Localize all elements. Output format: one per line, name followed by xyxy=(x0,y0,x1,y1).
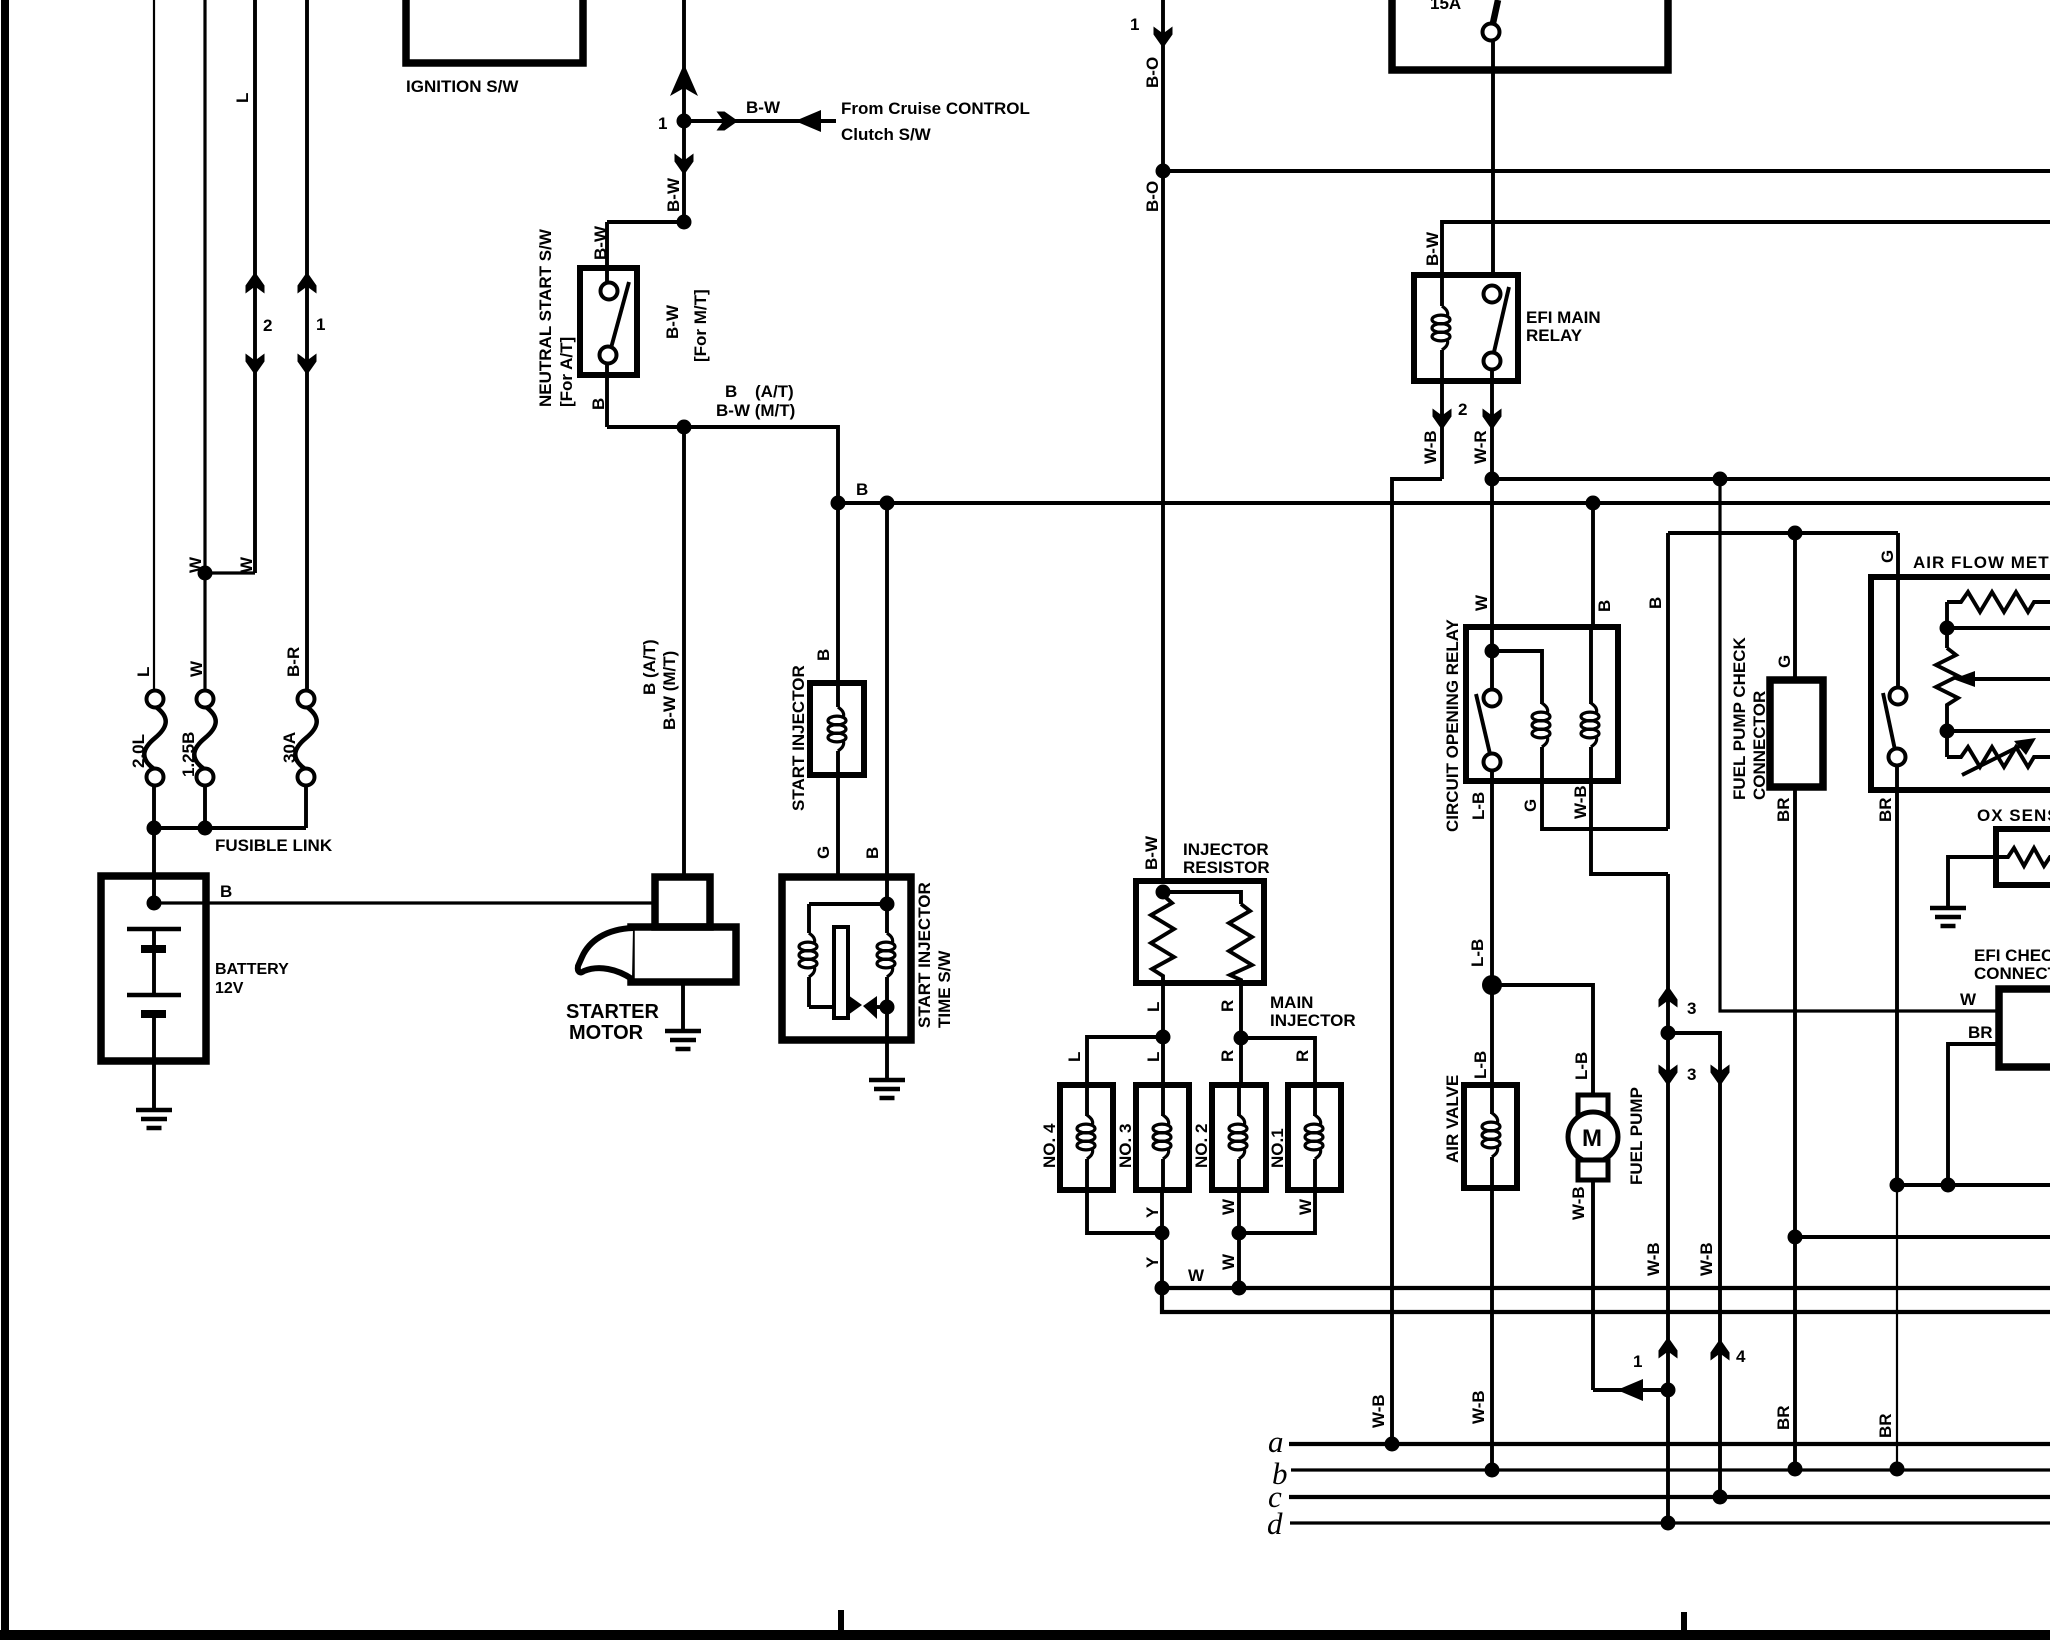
svg-text:3: 3 xyxy=(1687,1065,1696,1084)
svg-text:B-W (M/T): B-W (M/T) xyxy=(660,651,679,730)
svg-text:W-B: W-B xyxy=(1421,430,1440,464)
wire to line d xyxy=(1666,1390,1670,1523)
wire W-R bus (y=479) xyxy=(1492,477,2050,481)
injector NO.2 box xyxy=(1212,1085,1266,1190)
svg-text:B: B xyxy=(856,480,868,499)
node L-B xyxy=(1482,975,1502,995)
injector NO.1 box xyxy=(1288,1085,1341,1190)
ground (time s/w) xyxy=(869,1080,905,1098)
svg-text:B-R: B-R xyxy=(284,647,303,677)
svg-text:FUEL PUMP: FUEL PUMP xyxy=(1627,1087,1646,1185)
svg-text:L-B: L-B xyxy=(1469,792,1488,820)
ignition s/w box xyxy=(406,0,583,63)
wires resistor to injectors xyxy=(1161,983,1165,1085)
svg-text:W-B: W-B xyxy=(1569,1186,1588,1220)
EFI main relay switch xyxy=(1484,286,1501,303)
EFI check connector xyxy=(1720,479,2050,1193)
svg-text:B-W: B-W xyxy=(663,304,682,339)
wire internal top link xyxy=(809,902,887,906)
node on line c xyxy=(1713,1490,1728,1505)
motor body xyxy=(631,927,736,982)
air flow meter variable resistor xyxy=(1947,747,2050,767)
svg-text:W-B: W-B xyxy=(1697,1242,1716,1276)
wire G into air flow meter xyxy=(1896,533,1900,583)
svg-text:B: B xyxy=(220,882,232,901)
wire G bus (y=533) xyxy=(1668,531,1898,535)
svg-text:NEUTRAL START S/W: NEUTRAL START S/W xyxy=(536,228,555,407)
injector resistor xyxy=(1136,840,1270,983)
wire net b xyxy=(1291,1468,2050,1471)
svg-text:INJECTOR: INJECTOR xyxy=(1183,840,1269,859)
wire net d xyxy=(1290,1521,2050,1524)
ox sensor element resistor xyxy=(1996,848,2050,866)
svg-text:AIR VALVE: AIR VALVE xyxy=(1443,1075,1462,1163)
EFI check connector box xyxy=(1999,989,2050,1067)
injector NO.3 box xyxy=(1136,1085,1189,1190)
wire fuse bottoms to bus xyxy=(152,785,156,828)
ox sensor xyxy=(1930,806,2050,926)
node L xyxy=(1156,1030,1171,1045)
svg-text:From Cruise CONTROL: From Cruise CONTROL xyxy=(841,99,1030,118)
svg-text:B-W (M/T): B-W (M/T) xyxy=(716,401,795,420)
bimetal bar xyxy=(834,927,848,1018)
right zigzag xyxy=(1229,904,1252,983)
svg-text:Clutch S/W: Clutch S/W xyxy=(841,125,932,144)
svg-text:B-W: B-W xyxy=(591,225,610,260)
NSS bottom wire to main xyxy=(607,425,684,429)
start injector box xyxy=(810,683,864,775)
svg-text:BATTERY: BATTERY xyxy=(215,961,289,978)
EFI main relay coil xyxy=(1440,275,1444,306)
injector NO.2 xyxy=(1192,1085,1266,1190)
wire W feed (x=205) xyxy=(203,0,206,699)
svg-text:W: W xyxy=(1219,1253,1238,1270)
injector bottom wires xyxy=(1087,1190,1162,1233)
start injector time s/w box xyxy=(782,877,911,1040)
svg-text:15A: 15A xyxy=(1430,0,1461,13)
node R xyxy=(1234,1031,1249,1046)
wire B-W relay feed (y=222) xyxy=(1442,222,2050,275)
svg-text:W: W xyxy=(1188,1266,1205,1285)
svg-text:G: G xyxy=(1878,550,1897,563)
svg-text:NO.1: NO.1 xyxy=(1268,1128,1287,1168)
svg-text:BR: BR xyxy=(1968,1023,1993,1042)
air flow meter potentiometer resistor xyxy=(1936,648,1958,709)
svg-text:B: B xyxy=(1595,600,1614,612)
wire W to EFI check connector xyxy=(1720,479,1999,1011)
svg-text:W: W xyxy=(187,660,206,677)
wire B to COR coil xyxy=(1591,503,1595,627)
svg-text:W: W xyxy=(1472,594,1491,611)
svg-text:B-W: B-W xyxy=(746,98,781,117)
start injector time s/w xyxy=(782,846,954,1098)
wire B-O bus (y=171) xyxy=(1163,169,2050,173)
svg-text:B (A/T): B (A/T) xyxy=(640,639,659,695)
svg-text:START INJECTOR: START INJECTOR xyxy=(789,665,808,811)
svg-text:G: G xyxy=(1521,799,1540,812)
svg-text:AIR FLOW METER: AIR FLOW METER xyxy=(1913,553,2050,572)
air valve xyxy=(1443,1075,1517,1188)
injector ground bus W (y=1288) xyxy=(1162,1286,2050,1290)
node W-R xyxy=(1485,472,1500,487)
svg-text:EFI CHECK: EFI CHECK xyxy=(1974,946,2050,965)
svg-text:1.25B: 1.25B xyxy=(179,732,198,777)
injector NO.4 box xyxy=(1060,1085,1113,1190)
contact points xyxy=(848,995,862,1015)
branch to NO.1 xyxy=(1241,1038,1315,1085)
svg-text:MAIN: MAIN xyxy=(1270,993,1313,1012)
node B (start injector) xyxy=(831,496,846,511)
wire bus to battery xyxy=(152,828,156,903)
svg-text:NO. 2: NO. 2 xyxy=(1192,1124,1211,1168)
svg-text:TIME S/W: TIME S/W xyxy=(935,950,954,1028)
branch to NO.4 xyxy=(1087,1037,1163,1085)
return wire with arrow xyxy=(1593,1388,1668,1392)
svg-text:a: a xyxy=(1268,1424,1284,1459)
injector NO.3 xyxy=(1116,1085,1189,1190)
arrow up (to ignition) xyxy=(670,64,698,96)
svg-text:30A: 30A xyxy=(280,732,299,763)
svg-text:G: G xyxy=(1775,655,1794,668)
fusible link 2.0L xyxy=(129,691,166,786)
wire B battery to starter xyxy=(154,901,655,904)
EFI main relay xyxy=(1414,275,1601,381)
svg-text:W-B: W-B xyxy=(1571,785,1590,819)
svg-text:BR: BR xyxy=(1774,797,1793,822)
circuit opening relay xyxy=(1443,594,1618,832)
svg-text:Y: Y xyxy=(1143,1256,1162,1268)
neutral start s/w box xyxy=(580,268,637,375)
svg-text:1: 1 xyxy=(316,315,325,334)
EFI main relay box xyxy=(1414,275,1518,381)
ground (starter) xyxy=(665,1031,701,1049)
ecu lines a b c d xyxy=(1267,1424,2050,1541)
fusible link 1.25B xyxy=(179,691,216,786)
wire G to fuel pump check connector xyxy=(1793,533,1797,680)
wire G (COR) xyxy=(1542,781,1668,829)
node (neutral start branch) xyxy=(677,215,692,230)
node B (COR feed) xyxy=(1586,496,1601,511)
circuit opening relay coil 2 xyxy=(1589,627,1593,704)
svg-text:BR: BR xyxy=(1876,1413,1895,1438)
svg-text:BR: BR xyxy=(1876,797,1895,822)
air valve box and coil xyxy=(1464,1085,1517,1188)
NSS contacts xyxy=(605,268,609,282)
svg-text:R: R xyxy=(1218,1050,1237,1062)
node AFM BR xyxy=(1890,1178,1905,1193)
wire B bus (y=503) xyxy=(838,501,2050,505)
node 1 (cruise branch) xyxy=(677,114,692,129)
wire G riser (x=1668) xyxy=(1666,533,1670,829)
ground (ox sensor) xyxy=(1930,908,1966,926)
injector NO.4 xyxy=(1040,1085,1113,1190)
wire BR from connector xyxy=(1793,787,1797,1469)
battery cell plate - xyxy=(141,945,166,953)
svg-text:L: L xyxy=(1144,1002,1163,1012)
svg-text:W: W xyxy=(237,556,256,573)
wire connector branch (x=255) xyxy=(253,0,257,573)
svg-text:OX SENSOR: OX SENSOR xyxy=(1977,806,2050,825)
fuel pump check connector xyxy=(1730,533,1823,1477)
left zigzag xyxy=(1151,892,1174,983)
wire B to start injector xyxy=(836,503,840,683)
wire B-W main (x=684) xyxy=(682,0,686,222)
svg-text:W: W xyxy=(1219,1198,1238,1215)
fuel pump motor M xyxy=(1578,1095,1608,1115)
wire to ground xyxy=(681,982,685,1030)
wire cruise branch xyxy=(684,119,836,123)
svg-text:(A/T): (A/T) xyxy=(755,382,794,401)
chevron 1 xyxy=(1659,1337,1678,1359)
svg-text:3: 3 xyxy=(1687,999,1696,1018)
wire B-R feed (x=307) xyxy=(305,0,309,699)
svg-text:NO. 4: NO. 4 xyxy=(1040,1123,1059,1168)
svg-text:CIRCUIT OPENING RELAY: CIRCUIT OPENING RELAY xyxy=(1443,618,1462,832)
air flow meter switch xyxy=(1896,583,1900,688)
fuse bottom bus xyxy=(154,826,306,830)
BR below xyxy=(1895,790,1899,1185)
wire BR to EFI check connector xyxy=(1948,1044,1999,1185)
circuit opening relay switch xyxy=(1490,651,1494,689)
fuse 15A xyxy=(1493,0,1498,23)
wire xyxy=(152,929,156,945)
battery cells xyxy=(127,929,181,1109)
svg-text:1: 1 xyxy=(658,114,667,133)
svg-text:R: R xyxy=(1218,1000,1237,1012)
svg-text:CONNECTOR: CONNECTOR xyxy=(1974,964,2050,983)
svg-text:RELAY: RELAY xyxy=(1526,326,1583,345)
start injector xyxy=(789,503,864,877)
svg-text:L-B: L-B xyxy=(1468,939,1487,967)
border tick 1 xyxy=(838,1610,844,1632)
battery cell plate + (2) xyxy=(127,993,181,998)
injector ground bus 2 (y=1312) xyxy=(1162,1288,2050,1312)
node fuel pump return xyxy=(1661,1383,1676,1398)
battery cell plate - (2) xyxy=(141,1010,166,1018)
svg-text:RESISTOR: RESISTOR xyxy=(1183,858,1270,877)
starter solenoid box xyxy=(655,877,710,927)
svg-text:G: G xyxy=(814,846,833,859)
wire to time s/w xyxy=(836,751,840,877)
svg-text:B-W: B-W xyxy=(1423,231,1442,266)
fuel pump xyxy=(1568,1087,1668,1401)
15A fuse box (top right) xyxy=(1392,0,1668,70)
node (fuel pump check feed) xyxy=(1788,526,1803,541)
W-R output xyxy=(1490,381,1494,627)
battery cell plate + xyxy=(127,927,181,932)
wire net c xyxy=(1289,1495,2050,1499)
arrow left (from cruise) xyxy=(795,110,821,132)
svg-text:STARTER: STARTER xyxy=(566,1001,660,1023)
circuit opening relay box xyxy=(1466,627,1618,781)
pinion hook xyxy=(578,928,633,979)
circuit opening relay coil 1 xyxy=(1492,651,1542,704)
page border left xyxy=(1,0,9,1640)
junction x255 into x205 xyxy=(205,571,255,574)
connector 1 arrows xyxy=(298,272,317,294)
svg-text:B: B xyxy=(725,382,737,401)
wire L-B xyxy=(1490,781,1494,1085)
svg-text:4: 4 xyxy=(1736,1347,1746,1366)
neutral start s/w branch wire xyxy=(607,220,684,224)
air flow meter resistor R1 xyxy=(1947,592,2050,612)
wire W-B (COR) xyxy=(1591,781,1668,874)
svg-text:12V: 12V xyxy=(215,980,244,997)
wire net a xyxy=(1289,1442,2050,1446)
svg-text:[For M/T]: [For M/T] xyxy=(691,289,710,362)
node (B A/T junction) xyxy=(677,420,692,435)
air flow meter potentiometer wire xyxy=(1945,602,1949,648)
wire BR bus (y=1185) xyxy=(1897,1183,2050,1187)
fuel pump check connector box xyxy=(1770,680,1823,787)
svg-text:L-B: L-B xyxy=(1572,1052,1591,1080)
wire L feed (x=154) xyxy=(153,0,155,699)
branch to x=1720 xyxy=(1668,1033,1720,1497)
wire BR bus (y=1237) xyxy=(1795,1235,2050,1239)
connector 2 arrows xyxy=(246,272,265,294)
ground (battery) xyxy=(136,1110,172,1128)
wire W-B jog xyxy=(1392,479,1442,1444)
time s/w coil 1 xyxy=(807,904,811,933)
svg-text:Y: Y xyxy=(1143,1206,1162,1218)
svg-text:W-B: W-B xyxy=(1469,1390,1488,1424)
svg-text:FUSIBLE LINK: FUSIBLE LINK xyxy=(215,836,333,855)
svg-text:1: 1 xyxy=(1633,1352,1642,1371)
wire B-O main (x=1163) xyxy=(1161,0,1165,881)
svg-text:EFI MAIN: EFI MAIN xyxy=(1526,308,1601,327)
svg-text:B: B xyxy=(863,847,882,859)
ox sensor box xyxy=(1996,829,2050,885)
node a / W-B junction xyxy=(1385,1437,1400,1452)
page border bottom xyxy=(0,1630,2050,1640)
svg-text:W: W xyxy=(1296,1198,1315,1215)
svg-text:L: L xyxy=(1065,1052,1084,1062)
svg-text:R: R xyxy=(1293,1050,1312,1062)
svg-text:INJECTOR: INJECTOR xyxy=(1270,1011,1356,1030)
wire W-B chain (x=1668) xyxy=(1666,874,1670,1390)
node (EFI check W feed) xyxy=(1713,472,1728,487)
svg-text:NO. 3: NO. 3 xyxy=(1116,1124,1135,1168)
node B-O xyxy=(1156,164,1171,179)
wire B branch to start injector xyxy=(684,427,838,503)
wire L-B to fuel pump xyxy=(1492,985,1593,1095)
svg-text:L: L xyxy=(1144,1052,1163,1062)
svg-text:[For A/T]: [For A/T] xyxy=(557,337,576,407)
svg-text:START INJECTOR: START INJECTOR xyxy=(915,882,934,1028)
svg-text:1: 1 xyxy=(1130,15,1139,34)
svg-text:d: d xyxy=(1267,1506,1283,1541)
svg-text:B-O: B-O xyxy=(1143,57,1162,88)
svg-text:CONNECTOR: CONNECTOR xyxy=(1750,691,1769,800)
svg-text:W-B: W-B xyxy=(1369,1394,1388,1428)
svg-text:2: 2 xyxy=(1458,400,1467,419)
wire ox sensor to ground xyxy=(1948,857,1996,907)
wire battery to ground xyxy=(152,1018,156,1109)
chevron 4 xyxy=(1711,1339,1730,1361)
svg-text:B: B xyxy=(1646,597,1665,609)
wire time s/w B feed xyxy=(885,503,889,877)
svg-text:B-O: B-O xyxy=(1143,181,1162,212)
svg-text:BR: BR xyxy=(1774,1405,1793,1430)
connector chevron down (B-O top) xyxy=(1154,27,1173,49)
chevron right (cruise) xyxy=(717,112,739,131)
svg-text:B-W: B-W xyxy=(664,177,683,212)
battery 12V box xyxy=(101,876,206,1061)
svg-text:W-R: W-R xyxy=(1471,430,1490,464)
svg-text:2: 2 xyxy=(263,316,272,335)
border tick 2 xyxy=(1681,1612,1687,1632)
wire air valve down xyxy=(1490,1188,1494,1470)
svg-text:M: M xyxy=(1582,1125,1602,1152)
time s/w coil 2 (B branch) xyxy=(885,877,889,933)
potentiometer wiper arrow xyxy=(1972,677,2050,681)
injector NO.1 xyxy=(1268,1085,1341,1190)
svg-text:L-B: L-B xyxy=(1471,1051,1490,1079)
air flow meter xyxy=(1871,533,2050,1185)
svg-text:B: B xyxy=(814,649,833,661)
AFM box xyxy=(1871,577,2050,790)
svg-text:IGNITION S/W: IGNITION S/W xyxy=(406,77,519,96)
connector chevron down (B-W) xyxy=(675,154,694,176)
svg-text:FUEL PUMP CHECK: FUEL PUMP CHECK xyxy=(1730,636,1749,800)
start injector coil xyxy=(836,683,840,707)
svg-text:2.0L: 2.0L xyxy=(129,734,148,768)
node B (battery +) xyxy=(147,896,162,911)
svg-text:W-B: W-B xyxy=(1644,1242,1663,1276)
wire starter feed (x=684) xyxy=(682,427,686,877)
W-B output xyxy=(1440,381,1444,479)
wire AFM BR to line b xyxy=(1896,1185,1898,1469)
svg-text:MOTOR: MOTOR xyxy=(569,1022,644,1044)
starter motor xyxy=(566,877,736,1049)
svg-text:L: L xyxy=(134,667,153,677)
svg-text:L: L xyxy=(233,93,252,103)
svg-text:B: B xyxy=(589,398,608,410)
svg-text:W: W xyxy=(1960,990,1977,1009)
fusible link 30A xyxy=(280,691,317,786)
svg-text:B-W: B-W xyxy=(1142,835,1161,870)
